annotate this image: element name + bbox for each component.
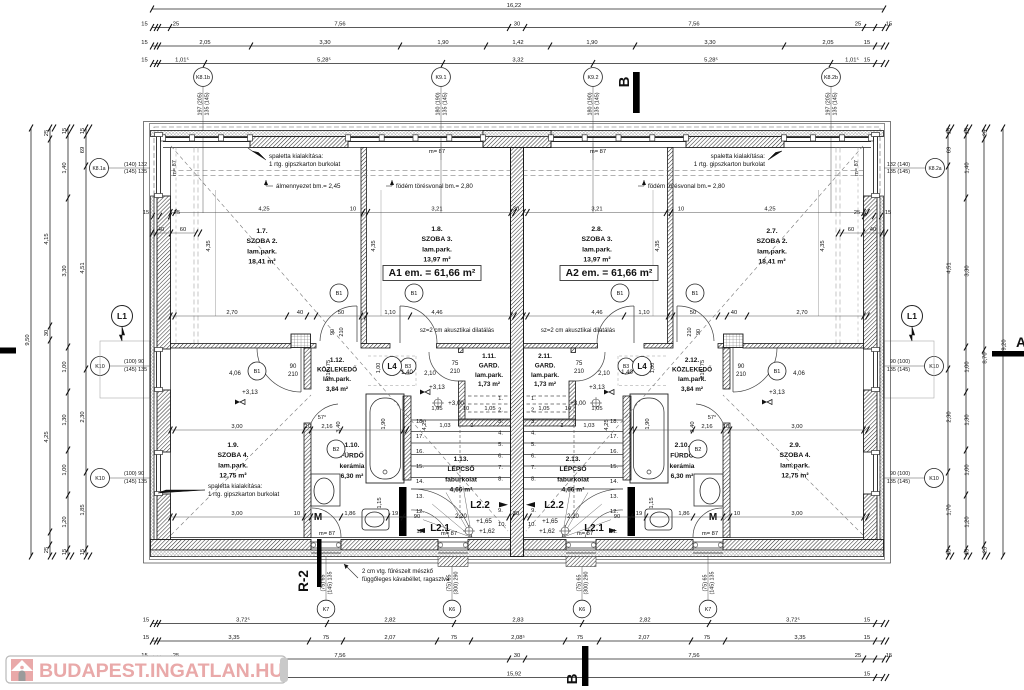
svg-text:60: 60 — [848, 227, 854, 233]
svg-text:14.: 14. — [416, 479, 424, 485]
grid bubble K7 — [707, 556, 709, 600]
svg-text:1,73 m²: 1,73 m² — [478, 381, 500, 388]
svg-text:19: 19 — [636, 511, 642, 517]
svg-text:+1,62: +1,62 — [539, 528, 555, 535]
wall szoba4/bath right — [723, 348, 730, 389]
svg-text:SZOBA 3.: SZOBA 3. — [421, 236, 452, 243]
svg-text:A2 em. = 61,66 m²: A2 em. = 61,66 m² — [566, 268, 653, 279]
svg-text:1,20: 1,20 — [965, 516, 971, 527]
dim bottom interior right — [526, 516, 864, 518]
svg-text:15: 15 — [886, 21, 892, 27]
svg-text:2.10.: 2.10. — [675, 442, 690, 449]
svg-text:15: 15 — [864, 635, 870, 641]
svg-text:4,35: 4,35 — [206, 240, 212, 251]
svg-text:lam.park.: lam.park. — [780, 462, 810, 469]
wall segment right — [718, 344, 724, 349]
sink left — [314, 478, 334, 504]
svg-text:m= 87: m= 87 — [702, 531, 718, 537]
stair treads right — [524, 419, 624, 421]
svg-text:(75) 65: (75) 65 — [577, 574, 583, 591]
svg-text:210: 210 — [450, 369, 461, 375]
svg-text:90: 90 — [738, 364, 745, 370]
svg-text:15: 15 — [62, 549, 68, 555]
wall szoba2/szoba3 left — [361, 148, 367, 344]
svg-text:L1: L1 — [907, 311, 917, 321]
svg-text:1,03: 1,03 — [583, 423, 594, 429]
wall gard north left — [437, 344, 511, 349]
svg-text:15: 15 — [965, 128, 971, 134]
svg-text:4,46: 4,46 — [591, 310, 602, 316]
svg-text:1,15: 1,15 — [377, 497, 383, 508]
svg-text:7,56: 7,56 — [688, 653, 699, 659]
svg-text:m= 87: m= 87 — [319, 531, 335, 537]
svg-text:sz=2 cm akusztikai dilatálás: sz=2 cm akusztikai dilatálás — [420, 328, 494, 334]
grid bubble K10 right — [884, 477, 926, 479]
svg-text:210: 210 — [700, 369, 706, 379]
K10 leader box right — [884, 341, 934, 398]
svg-text:(145) 135: (145) 135 — [328, 571, 334, 594]
svg-text:17.: 17. — [416, 434, 424, 440]
wall hallway north left — [171, 344, 292, 349]
svg-text:1,90: 1,90 — [381, 418, 387, 429]
svg-text:60: 60 — [180, 227, 186, 233]
svg-text:6.: 6. — [531, 454, 536, 460]
svg-text:15: 15 — [864, 671, 870, 677]
svg-text:50: 50 — [690, 310, 696, 316]
svg-text:5.: 5. — [498, 442, 503, 448]
svg-text:15,92: 15,92 — [507, 671, 522, 677]
bottom wall opening threshold — [566, 541, 596, 543]
svg-text:1,86: 1,86 — [344, 511, 355, 517]
svg-text:2.13.: 2.13. — [566, 456, 581, 463]
svg-text:50: 50 — [338, 310, 344, 316]
top dimension row 16,22 — [152, 8, 884, 10]
svg-text:1,40: 1,40 — [401, 370, 413, 376]
svg-text:spaletta kialakítása:: spaletta kialakítása: — [711, 153, 766, 160]
svg-text:4,25: 4,25 — [44, 431, 50, 442]
top wall insulation strip — [151, 131, 884, 137]
svg-text:1,05: 1,05 — [484, 406, 495, 412]
svg-text:2,30: 2,30 — [947, 411, 953, 422]
svg-text:1.9.: 1.9. — [227, 442, 238, 449]
svg-text:16.: 16. — [416, 449, 424, 455]
svg-text:30: 30 — [514, 653, 520, 659]
svg-text:3,21: 3,21 — [591, 206, 602, 212]
svg-text:9.: 9. — [498, 508, 503, 514]
section mark B top — [633, 72, 640, 113]
svg-text:K10: K10 — [95, 476, 105, 482]
svg-text:7.: 7. — [531, 465, 536, 471]
svg-text:2.: 2. — [498, 408, 503, 414]
right wall window — [877, 349, 879, 390]
svg-text:1.: 1. — [531, 396, 536, 402]
svg-text:2,10: 2,10 — [598, 371, 610, 377]
svg-text:1,15: 1,15 — [649, 497, 655, 508]
roof break diagonal right — [526, 146, 863, 531]
svg-text:197 (205): 197 (205) — [826, 92, 832, 115]
svg-text:25: 25 — [855, 653, 861, 659]
svg-text:1,70: 1,70 — [947, 504, 953, 515]
svg-text:30: 30 — [513, 511, 519, 517]
svg-text:13.: 13. — [610, 494, 618, 500]
svg-text:M: M — [314, 512, 322, 523]
svg-text:1,00: 1,00 — [965, 464, 971, 475]
svg-text:10: 10 — [723, 424, 729, 430]
bottom wall inner face line — [171, 537, 511, 539]
svg-text:10: 10 — [734, 511, 740, 517]
svg-text:30: 30 — [44, 330, 50, 336]
svg-text:15: 15 — [864, 617, 870, 623]
black duct right — [628, 487, 636, 536]
svg-text:+3,00: +3,00 — [570, 400, 586, 407]
svg-text:(75) 65: (75) 65 — [703, 574, 709, 591]
svg-text:18,41 m²: 18,41 m² — [758, 259, 786, 266]
svg-text:2: 2 — [561, 423, 564, 429]
stair fan left — [463, 486, 472, 537]
svg-text:1,40: 1,40 — [621, 370, 633, 376]
svg-text:3,72⁵: 3,72⁵ — [236, 616, 250, 623]
grid bubble K10 left — [108, 365, 150, 367]
svg-text:10: 10 — [350, 206, 356, 212]
door arc gard left — [429, 352, 458, 381]
svg-text:(100) 90: (100) 90 — [124, 471, 144, 477]
svg-text:1,30: 1,30 — [965, 414, 971, 425]
L4 bubbles — [383, 357, 402, 376]
left wall window — [156, 452, 158, 494]
bottom wall opening threshold — [311, 541, 341, 543]
svg-text:2.7.: 2.7. — [766, 228, 777, 235]
svg-text:K7: K7 — [705, 607, 712, 613]
svg-text:2,16: 2,16 — [701, 424, 712, 430]
left dim chain 9,50 — [30, 128, 32, 556]
door arc szoba3 left — [400, 306, 437, 343]
svg-text:GARD.: GARD. — [535, 362, 556, 369]
watermark box — [6, 656, 286, 683]
svg-text:2.9.: 2.9. — [789, 442, 800, 449]
svg-text:LÉPCSŐ: LÉPCSŐ — [447, 464, 474, 473]
svg-text:K7: K7 — [323, 607, 330, 613]
bottom wall opening threshold — [438, 541, 468, 543]
svg-text:3,40: 3,40 — [690, 421, 696, 432]
left wall segment — [157, 390, 171, 452]
svg-text:75: 75 — [577, 635, 583, 641]
left wall insulation strip — [151, 196, 155, 557]
right wall segment — [864, 390, 878, 452]
svg-text:25: 25 — [854, 210, 860, 216]
svg-text:5,28⁵: 5,28⁵ — [317, 56, 331, 63]
svg-text:1 rtg. gipszkarton burkolat: 1 rtg. gipszkarton burkolat — [269, 161, 340, 168]
svg-text:10.: 10. — [528, 522, 536, 528]
svg-text:+1,65: +1,65 — [542, 518, 558, 525]
svg-text:3.: 3. — [531, 419, 536, 425]
svg-text:1,42: 1,42 — [512, 40, 523, 46]
svg-text:1,10: 1,10 — [638, 310, 649, 316]
bottom wall opening threshold — [693, 541, 723, 543]
svg-text:1,40: 1,40 — [62, 162, 68, 173]
svg-text:25: 25 — [983, 547, 989, 553]
svg-text:13,97 m²: 13,97 m² — [583, 257, 611, 264]
svg-text:1,05: 1,05 — [538, 406, 549, 412]
svg-text:4.: 4. — [498, 431, 503, 437]
stair fan right — [562, 486, 571, 537]
gard wardrobe wall right — [524, 419, 576, 426]
svg-text:15: 15 — [80, 549, 86, 555]
svg-text:4,25: 4,25 — [604, 419, 610, 430]
svg-text:lam.park.: lam.park. — [218, 462, 248, 469]
area label A1 — [383, 266, 481, 281]
svg-text:B1: B1 — [411, 291, 418, 297]
svg-text:SZOBA 2.: SZOBA 2. — [756, 238, 787, 245]
left dim chain 25 4,15 30 4,25 — [49, 128, 51, 556]
svg-text:57°: 57° — [318, 415, 326, 421]
svg-text:69: 69 — [947, 147, 953, 153]
svg-text:9,20: 9,20 — [1002, 339, 1008, 350]
svg-text:3,35: 3,35 — [794, 635, 805, 641]
svg-text:30: 30 — [513, 206, 519, 212]
svg-text:135 (145): 135 (145) — [205, 92, 211, 115]
watermark logo — [11, 659, 33, 681]
right wall segment — [864, 196, 878, 349]
svg-text:3.: 3. — [498, 419, 503, 425]
svg-text:B1: B1 — [774, 369, 781, 375]
svg-text:1,40: 1,40 — [965, 162, 971, 173]
svg-text:7,56: 7,56 — [334, 21, 345, 27]
door arc szoba2 left — [320, 306, 357, 341]
svg-text:6.: 6. — [498, 454, 503, 460]
pillar crosshatch left — [291, 334, 311, 348]
svg-text:sz=2 cm akusztikai dilatálás: sz=2 cm akusztikai dilatálás — [541, 328, 615, 334]
svg-text:GARD.: GARD. — [479, 362, 500, 369]
svg-text:25: 25 — [174, 210, 180, 216]
right wall window — [877, 134, 879, 196]
B3 bubbles — [400, 358, 416, 374]
svg-text:lam.park.: lam.park. — [531, 372, 559, 379]
svg-text:10: 10 — [463, 406, 469, 412]
svg-text:15: 15 — [864, 40, 870, 46]
svg-text:18,41 m²: 18,41 m² — [248, 259, 276, 266]
svg-text:15: 15 — [886, 653, 892, 659]
svg-text:födém törésvonal bm.= 2,80: födém törésvonal bm.= 2,80 — [396, 183, 473, 190]
svg-text:19: 19 — [392, 511, 398, 517]
svg-text:B3: B3 — [405, 364, 411, 370]
svg-text:15: 15 — [947, 128, 953, 134]
svg-text:4.: 4. — [531, 431, 536, 437]
wall segment left — [311, 344, 317, 349]
svg-text:18.: 18. — [610, 419, 618, 425]
svg-text:2,10: 2,10 — [424, 371, 436, 377]
svg-text:K6: K6 — [579, 607, 586, 613]
svg-text:17.: 17. — [610, 434, 618, 440]
svg-text:2,20: 2,20 — [455, 514, 467, 520]
svg-text:4,06: 4,06 — [793, 371, 805, 377]
svg-text:75: 75 — [700, 360, 706, 366]
gard wardrobe wall left — [459, 419, 511, 426]
bathtub right — [630, 394, 668, 483]
left dim chain 1,40 3,30 1,00 1,30 — [67, 128, 69, 556]
svg-text:1,05: 1,05 — [431, 406, 442, 412]
K10 leader box left — [100, 341, 150, 398]
level +1,65/+1,62 right — [561, 527, 569, 535]
svg-text:25: 25 — [855, 21, 861, 27]
wall segment mid left — [361, 344, 390, 349]
svg-text:25: 25 — [44, 130, 50, 136]
svg-text:+3,13: +3,13 — [589, 384, 605, 391]
svg-text:1,00: 1,00 — [62, 464, 68, 475]
dim mid left — [171, 315, 511, 317]
svg-text:135 (145): 135 (145) — [443, 92, 449, 115]
svg-text:kerámia: kerámia — [340, 463, 365, 470]
right dim chain 9,20 — [1002, 128, 1004, 556]
svg-text:210: 210 — [736, 372, 747, 378]
svg-text:L2.2: L2.2 — [470, 500, 490, 511]
svg-text:10: 10 — [305, 424, 311, 430]
toilet left — [362, 509, 389, 530]
eaves outline inner — [150, 124, 885, 560]
svg-text:15.: 15. — [610, 464, 618, 470]
wall bath/stair left — [403, 396, 411, 480]
svg-text:2,82: 2,82 — [384, 617, 395, 623]
grid bubble K10 left — [108, 477, 150, 479]
bottom wall insulation band — [151, 550, 884, 557]
grid bubble K8.2a — [884, 167, 926, 169]
svg-text:1,86: 1,86 — [678, 511, 689, 517]
svg-text:KÖZLEKEDŐ: KÖZLEKEDŐ — [672, 365, 712, 374]
svg-text:7,56: 7,56 — [688, 21, 699, 27]
svg-text:90: 90 — [290, 364, 297, 370]
svg-text:180 (190): 180 (190) — [588, 92, 594, 115]
door arc entry left — [312, 508, 341, 537]
svg-text:+1,65: +1,65 — [476, 518, 492, 525]
wall gard north right — [524, 344, 598, 349]
svg-text:spaletta kialakítása:: spaletta kialakítása: — [208, 483, 263, 490]
svg-text:15: 15 — [62, 128, 68, 134]
svg-text:4,25: 4,25 — [258, 206, 269, 212]
svg-text:3,00: 3,00 — [791, 424, 802, 430]
svg-text:75: 75 — [452, 361, 459, 367]
svg-text:K6: K6 — [449, 607, 456, 613]
svg-text:25: 25 — [173, 21, 179, 27]
svg-text:2,05: 2,05 — [199, 40, 210, 46]
svg-text:2: 2 — [471, 423, 474, 429]
svg-text:10: 10 — [678, 206, 684, 212]
svg-text:90 (100): 90 (100) — [890, 471, 910, 477]
svg-text:m= 87: m= 87 — [429, 149, 445, 155]
sink right — [700, 478, 720, 504]
svg-text:+3,13: +3,13 — [242, 389, 258, 396]
svg-text:4,35: 4,35 — [820, 240, 826, 251]
right dim chain 1,40 3,30 1,00 1,30 — [965, 128, 967, 556]
svg-text:1.12.: 1.12. — [330, 357, 344, 364]
toilet right — [645, 509, 672, 530]
svg-text:3,00: 3,00 — [231, 424, 242, 430]
svg-text:K8.1a: K8.1a — [92, 166, 105, 172]
svg-text:11.: 11. — [416, 529, 424, 535]
svg-text:1,00: 1,00 — [650, 363, 656, 374]
svg-text:13.: 13. — [416, 494, 424, 500]
level +1,65/+1,62 left — [465, 527, 473, 535]
svg-text:KÖZLEKEDŐ: KÖZLEKEDŐ — [317, 365, 357, 374]
svg-text:15: 15 — [80, 128, 86, 134]
svg-text:B1: B1 — [692, 291, 699, 297]
svg-text:90: 90 — [696, 329, 702, 335]
svg-text:11.: 11. — [610, 529, 618, 535]
door arc szoba4 right — [733, 348, 777, 392]
svg-text:L4: L4 — [387, 362, 397, 371]
svg-text:3,00: 3,00 — [791, 511, 802, 517]
svg-text:15: 15 — [141, 40, 147, 46]
section mark B bottom — [582, 646, 588, 686]
dim room tops left — [171, 212, 511, 214]
svg-text:B: B — [616, 76, 633, 87]
svg-text:(300) 290: (300) 290 — [454, 571, 460, 594]
svg-text:1,90: 1,90 — [437, 40, 448, 46]
svg-text:B1: B1 — [617, 291, 624, 297]
ceiling dashed lines right — [524, 170, 864, 172]
grid bubble L1 right — [902, 306, 923, 327]
svg-text:B1: B1 — [336, 291, 343, 297]
door arc szoba3 right — [597, 306, 634, 343]
svg-text:födém törésvonal bm.= 2,80: födém törésvonal bm.= 2,80 — [648, 183, 725, 190]
svg-text:K9.2: K9.2 — [587, 75, 598, 81]
door stoop left — [438, 557, 468, 567]
svg-text:m= 87: m= 87 — [854, 160, 860, 176]
svg-text:15: 15 — [885, 210, 891, 216]
level +3,13 hall left — [420, 390, 425, 395]
svg-text:15: 15 — [143, 210, 149, 216]
svg-text:1,85: 1,85 — [80, 504, 86, 515]
svg-text:m= 87: m= 87 — [577, 531, 593, 537]
svg-text:1,73 m²: 1,73 m² — [534, 381, 556, 388]
svg-text:1.11.: 1.11. — [482, 353, 496, 360]
sink niche right — [694, 474, 723, 506]
svg-text:K10: K10 — [929, 476, 939, 482]
svg-text:3,30: 3,30 — [319, 40, 330, 46]
wall gard west left — [459, 348, 464, 353]
dashed niche box right — [618, 355, 666, 357]
svg-text:1,30: 1,30 — [62, 414, 68, 425]
window band top wall — [551, 137, 686, 139]
svg-text:LÉPCSŐ: LÉPCSŐ — [559, 464, 586, 473]
svg-text:(145) 135: (145) 135 — [710, 571, 716, 594]
svg-text:lam.park.: lam.park. — [582, 246, 612, 253]
svg-text:12,75 m²: 12,75 m² — [219, 473, 247, 480]
svg-text:2,05: 2,05 — [822, 40, 833, 46]
svg-text:4,15: 4,15 — [44, 233, 50, 244]
svg-text:1.10.: 1.10. — [345, 442, 360, 449]
svg-text:L2.2: L2.2 — [544, 500, 564, 511]
svg-text:A: A — [1016, 334, 1024, 350]
svg-text:m= 87: m= 87 — [172, 160, 178, 176]
svg-text:m= 87: m= 87 — [590, 149, 606, 155]
svg-text:2,70: 2,70 — [226, 310, 237, 316]
svg-text:álmennyezet bm.= 2,45: álmennyezet bm.= 2,45 — [276, 183, 341, 190]
level +3,13 left flag — [235, 400, 240, 405]
svg-text:10: 10 — [294, 511, 300, 517]
svg-text:90: 90 — [330, 329, 336, 335]
right dim chain 25 4,15 8,70 — [983, 128, 985, 556]
svg-text:40: 40 — [158, 227, 164, 233]
svg-text:15.: 15. — [416, 464, 424, 470]
bottom dimension row 3,35 75 2,07 — [152, 640, 883, 642]
svg-text:3,21: 3,21 — [431, 206, 442, 212]
svg-text:1.7.: 1.7. — [256, 228, 267, 235]
top dimension row 5,28 — [152, 63, 883, 65]
svg-text:8.: 8. — [498, 477, 503, 483]
svg-text:+3,13: +3,13 — [429, 384, 445, 391]
svg-text:15: 15 — [864, 57, 870, 63]
svg-text:lam.park.: lam.park. — [757, 248, 787, 255]
svg-text:6,30 m²: 6,30 m² — [671, 473, 695, 480]
